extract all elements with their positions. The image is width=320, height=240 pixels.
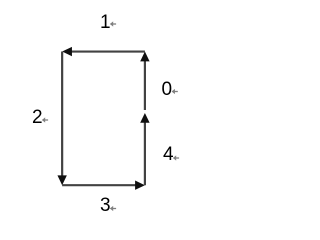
small gray arrow glyph after label 0 [172, 89, 178, 94]
label 4 (right edge lower) [163, 145, 174, 164]
small gray arrow glyph after label 3 [110, 206, 116, 211]
small gray arrow glyph after label 1 [110, 21, 116, 26]
label 3 (bottom edge) [100, 196, 111, 215]
arrowhead of vector 2 at bottom-left corner [57, 175, 66, 185]
wire: bottom edge (vector 3, pointing right) [62, 184, 137, 186]
wire: right edge lower segment (vector 4, pointing up) [144, 121, 146, 185]
arrowhead of vector 0 at top-right corner [140, 52, 149, 62]
label 0 (right edge upper) [162, 80, 173, 99]
small gray arrow glyph after label 2 [42, 117, 48, 122]
arrowhead of vector 3 at bottom-right corner [135, 181, 145, 190]
small gray arrow glyph after label 4 [173, 155, 179, 160]
label 1 (top edge) [100, 13, 111, 32]
wire: top edge (vector 1, pointing left) [70, 50, 145, 52]
arrowhead of vector 4 at middle of right edge [140, 113, 149, 123]
wire: right edge upper segment (vector 0, pointing up) [144, 59, 146, 110]
label 2 (left edge) [32, 108, 43, 127]
arrowhead of vector 1 at top-left corner [62, 47, 72, 56]
wire: left edge (vector 2, pointing down) [61, 52, 63, 177]
